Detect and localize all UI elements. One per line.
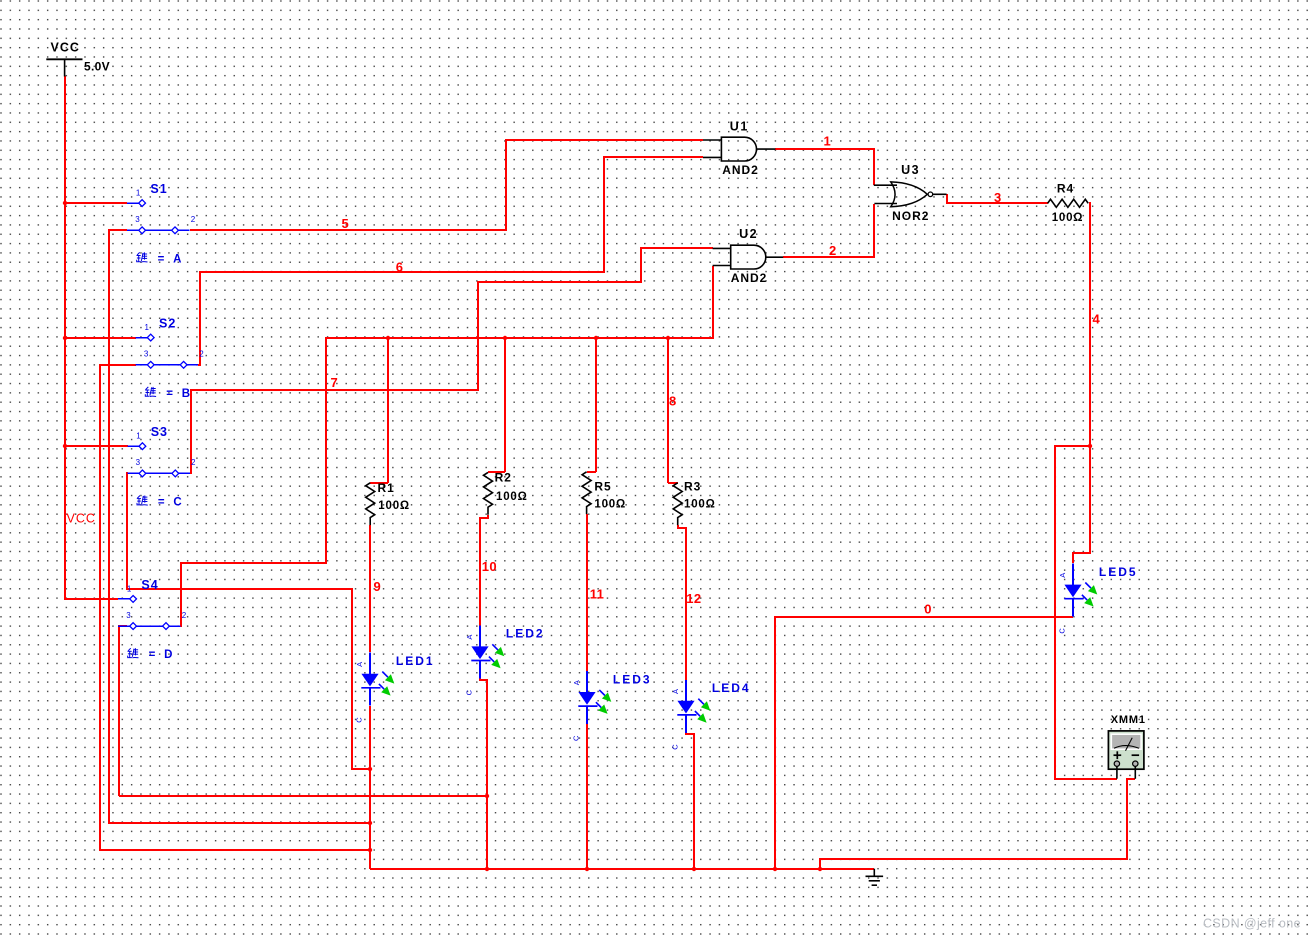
svg-text:3: 3 bbox=[135, 215, 140, 224]
svg-text:R4: R4 bbox=[1057, 182, 1074, 196]
svg-text:VCC: VCC bbox=[51, 41, 80, 55]
svg-text:0: 0 bbox=[924, 602, 932, 617]
svg-text:B: B bbox=[182, 388, 190, 400]
svg-text:C: C bbox=[354, 717, 363, 723]
svg-text:U2: U2 bbox=[739, 227, 758, 241]
svg-text:2: 2 bbox=[182, 611, 187, 620]
svg-text:C: C bbox=[1057, 628, 1066, 634]
svg-text:2: 2 bbox=[199, 350, 204, 359]
svg-text:R1: R1 bbox=[378, 481, 395, 495]
svg-text:5: 5 bbox=[342, 216, 350, 231]
svg-text:C: C bbox=[464, 689, 473, 695]
svg-text:1: 1 bbox=[136, 432, 141, 441]
svg-text:=: = bbox=[166, 388, 173, 400]
svg-text:VCC: VCC bbox=[67, 512, 96, 526]
svg-text:CSDN @jeff one: CSDN @jeff one bbox=[1203, 917, 1301, 931]
svg-text:100Ω: 100Ω bbox=[594, 499, 626, 511]
svg-text:R3: R3 bbox=[684, 479, 701, 493]
svg-text:1: 1 bbox=[127, 584, 132, 593]
svg-text:D: D bbox=[164, 649, 172, 661]
svg-text:R5: R5 bbox=[594, 479, 611, 493]
svg-text:6: 6 bbox=[396, 260, 404, 275]
svg-text:LED1: LED1 bbox=[396, 654, 435, 668]
svg-text:R2: R2 bbox=[495, 471, 512, 485]
svg-text:LED4: LED4 bbox=[712, 681, 751, 695]
svg-text:A: A bbox=[355, 662, 364, 667]
svg-text:100Ω: 100Ω bbox=[496, 491, 528, 503]
svg-text:C: C bbox=[173, 497, 181, 509]
svg-text:100Ω: 100Ω bbox=[684, 499, 716, 511]
svg-text:U3: U3 bbox=[901, 163, 920, 177]
svg-text:1: 1 bbox=[145, 323, 150, 332]
svg-text:3: 3 bbox=[136, 458, 141, 467]
svg-text:A: A bbox=[465, 635, 474, 640]
svg-text:5.0V: 5.0V bbox=[84, 60, 110, 74]
svg-text:100Ω: 100Ω bbox=[1052, 212, 1084, 224]
svg-text:12: 12 bbox=[686, 591, 701, 606]
svg-text:10: 10 bbox=[482, 559, 497, 574]
svg-text:S4: S4 bbox=[141, 578, 158, 592]
svg-text:A: A bbox=[1058, 573, 1067, 578]
svg-text:9: 9 bbox=[374, 579, 382, 594]
svg-text:=: = bbox=[158, 253, 165, 265]
svg-text:A: A bbox=[173, 253, 181, 265]
svg-text:AND2: AND2 bbox=[731, 271, 768, 285]
svg-text:100Ω: 100Ω bbox=[378, 500, 410, 512]
svg-text:1: 1 bbox=[136, 189, 141, 198]
svg-text:4: 4 bbox=[1093, 311, 1101, 326]
svg-text:C: C bbox=[571, 735, 580, 741]
svg-text:S3: S3 bbox=[151, 425, 168, 439]
svg-text:3: 3 bbox=[994, 190, 1002, 205]
svg-text:C: C bbox=[670, 744, 679, 750]
svg-text:XMM1: XMM1 bbox=[1111, 714, 1146, 726]
svg-text:A: A bbox=[671, 689, 680, 694]
svg-text:2: 2 bbox=[829, 243, 837, 258]
svg-text:1: 1 bbox=[824, 134, 832, 149]
svg-text:A: A bbox=[572, 680, 581, 685]
svg-text:AND2: AND2 bbox=[722, 163, 759, 177]
svg-text:U1: U1 bbox=[730, 120, 749, 134]
svg-text:3: 3 bbox=[126, 611, 131, 620]
svg-text:LED5: LED5 bbox=[1099, 565, 1138, 579]
svg-text:11: 11 bbox=[590, 586, 604, 601]
svg-text:NOR2: NOR2 bbox=[892, 209, 929, 223]
svg-text:=: = bbox=[149, 649, 156, 661]
svg-text:8: 8 bbox=[669, 394, 677, 409]
svg-text:S2: S2 bbox=[159, 317, 176, 331]
svg-text:S1: S1 bbox=[150, 182, 167, 196]
svg-text:2: 2 bbox=[191, 215, 196, 224]
svg-text:2: 2 bbox=[191, 458, 196, 467]
svg-text:7: 7 bbox=[331, 375, 339, 390]
svg-text:3: 3 bbox=[144, 350, 149, 359]
svg-text:=: = bbox=[158, 497, 165, 509]
svg-text:LED2: LED2 bbox=[506, 627, 545, 641]
svg-text:LED3: LED3 bbox=[613, 672, 652, 686]
